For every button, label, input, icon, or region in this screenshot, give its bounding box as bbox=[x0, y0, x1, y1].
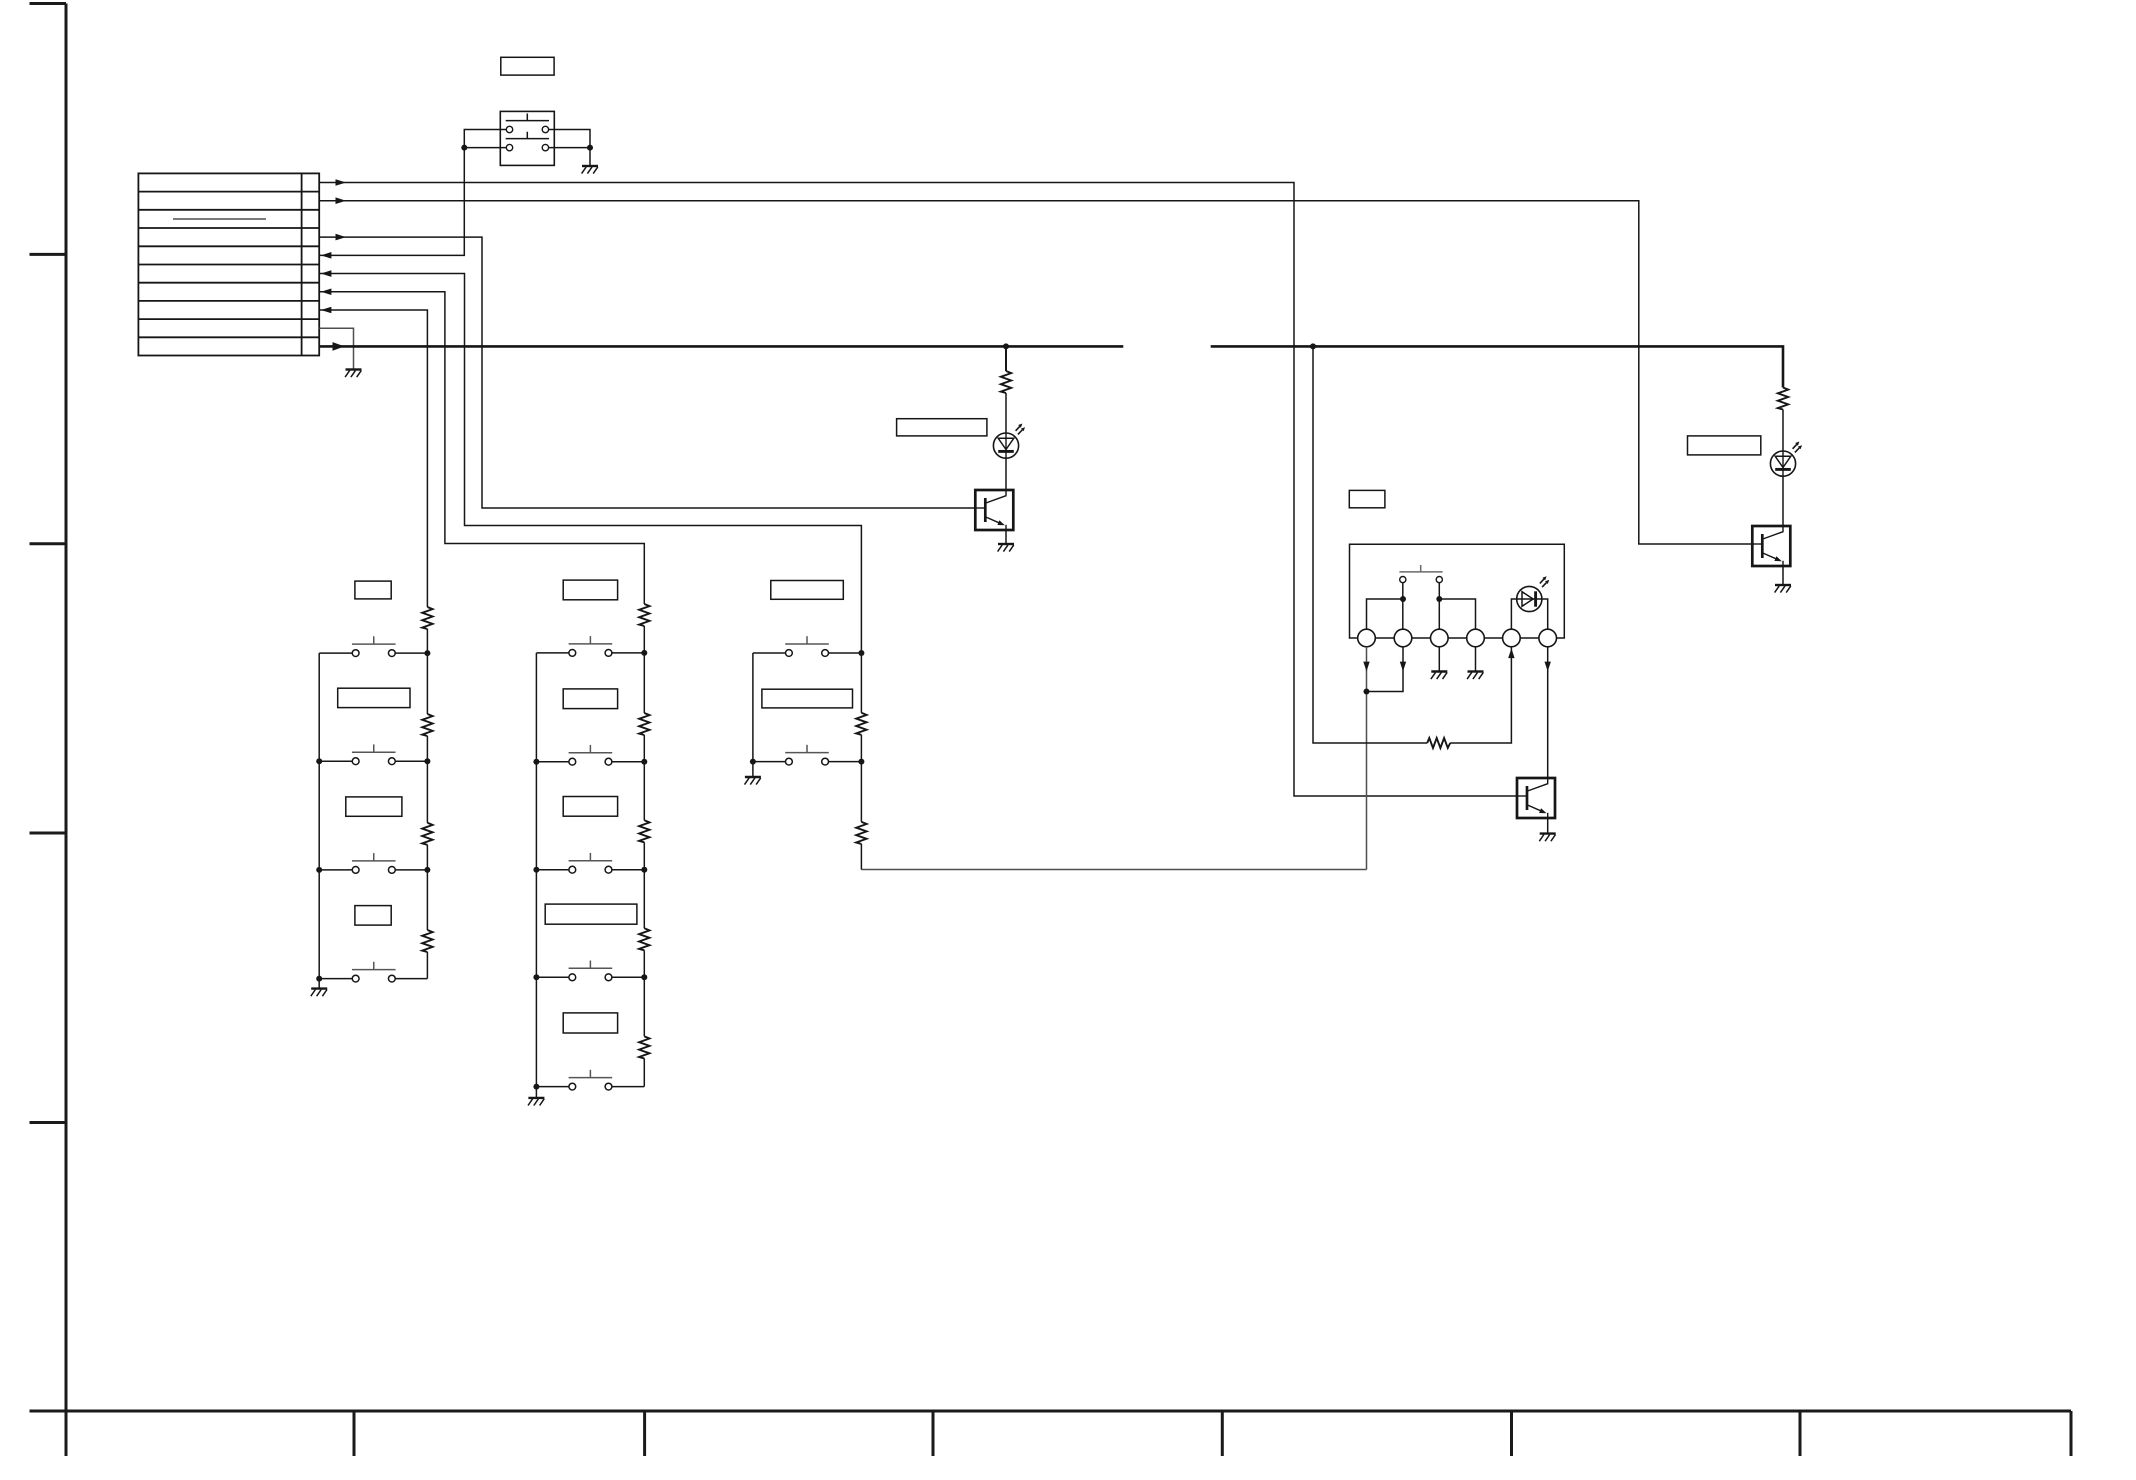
key switch S632 bbox=[785, 745, 829, 765]
wire pin4 arrow bbox=[336, 234, 347, 241]
junction ladder2 row2 left bbox=[533, 759, 539, 765]
label S612 bbox=[338, 688, 410, 707]
transistor Q602 bbox=[1752, 526, 1790, 566]
resistor R632 bbox=[856, 822, 866, 844]
label S632 bbox=[762, 689, 853, 708]
ground Q601 bbox=[998, 544, 1014, 552]
jack J601 pin 4 bbox=[1467, 629, 1485, 647]
wire pin8 arrow bbox=[321, 307, 332, 314]
ground ladder2 bbox=[528, 1098, 544, 1106]
resistor R603 bbox=[1427, 738, 1450, 748]
wire ladder1 rail seg1 bbox=[426, 629, 428, 714]
junction ladder1 row2 right bbox=[424, 758, 430, 764]
junction ladder2 row4 left bbox=[533, 974, 539, 980]
label S625 bbox=[563, 1013, 617, 1033]
wire pin1 arrow bbox=[336, 179, 347, 186]
wire to pin4 bbox=[1439, 599, 1475, 629]
wire pin6 down to Q603 bbox=[1547, 647, 1549, 778]
jack J601 pin 1 bbox=[1358, 629, 1376, 647]
label S622 bbox=[563, 689, 617, 709]
resistor R625 bbox=[639, 1036, 649, 1058]
ground Q603 bbox=[1539, 834, 1555, 842]
jack plug-detect switch bbox=[1399, 565, 1442, 583]
jack J601 pin 6 bbox=[1539, 629, 1557, 647]
wire ladder2 rail seg4 bbox=[643, 950, 645, 1036]
key switch S624 bbox=[569, 961, 613, 981]
junction ladder2 row1 right bbox=[641, 650, 647, 656]
wire ladder1 rail seg3 bbox=[426, 845, 428, 930]
LED D601 bbox=[993, 424, 1025, 459]
label S613 bbox=[346, 797, 402, 816]
wire D602 to Q602 bbox=[1782, 476, 1784, 526]
power switch S601 bbox=[500, 111, 554, 165]
wire ladder3 rail seg3 bbox=[860, 762, 862, 822]
wire pin5 arrow bbox=[321, 252, 332, 259]
label S623 bbox=[563, 797, 617, 817]
wire pin1 down to ladder3 link bbox=[1366, 647, 1368, 870]
wire S625 stubs bbox=[536, 1086, 644, 1088]
wire S611 stubs bbox=[319, 652, 427, 654]
arrow pin1 down bbox=[1363, 662, 1369, 672]
wire ladder3 to jack pin1 bbox=[861, 869, 1366, 871]
wire S631 stubs bbox=[753, 652, 862, 654]
arrow pin5 up bbox=[1508, 648, 1514, 658]
junction ladder1 row3 right bbox=[424, 867, 430, 873]
wire pin5 riser to D603 bbox=[1511, 599, 1516, 629]
jack J601 pin 2 bbox=[1394, 629, 1412, 647]
resistor R601 bbox=[1001, 371, 1011, 393]
ground S601 bbox=[582, 166, 598, 174]
wire pin5 to R603 and bus bbox=[1313, 346, 1511, 743]
wire S623 stubs bbox=[536, 869, 644, 871]
wire Q601 emitter to ground bbox=[1005, 530, 1007, 544]
LED D603 bbox=[1517, 576, 1550, 611]
key switch S625 bbox=[569, 1070, 613, 1090]
junction ladder3 row2 left bbox=[750, 759, 756, 765]
wire ladder1 rail seg4 bbox=[426, 952, 428, 979]
jack J601 body bbox=[1350, 544, 1565, 638]
key switch S612 bbox=[352, 744, 396, 764]
wire D603 to pin6 bbox=[1542, 599, 1548, 629]
key switch S613 bbox=[352, 853, 396, 873]
junction bus to R601 bbox=[1003, 343, 1009, 349]
wire pin2 to Q602 base bbox=[319, 201, 1752, 544]
key switch S611 bbox=[352, 636, 396, 656]
junction ladder1 row4 left bbox=[316, 976, 322, 982]
arrow pin6 down bbox=[1545, 662, 1551, 672]
key switch S623 bbox=[569, 853, 613, 873]
resistor R611 bbox=[422, 607, 432, 629]
junction S601 right bbox=[587, 145, 593, 151]
wire S624 stubs bbox=[536, 976, 644, 978]
junction pin1 pin2 bbox=[1364, 689, 1370, 695]
resistor R624 bbox=[639, 928, 649, 950]
wire D601 to Q601 bbox=[1005, 458, 1007, 490]
wire ladder3 return rail bbox=[752, 653, 754, 777]
resistor R612 bbox=[422, 714, 432, 736]
resistor R613 bbox=[422, 823, 432, 845]
wire ladder3 rail seg2 bbox=[860, 735, 862, 762]
wire detect switch left to pin2 bbox=[1402, 583, 1404, 630]
junction detect left bbox=[1400, 596, 1406, 602]
wire R602 to D602 bbox=[1782, 410, 1784, 452]
key switch S622 bbox=[569, 745, 613, 765]
wire power switch to pin5 bbox=[319, 148, 464, 256]
junction ladder2 row5 left bbox=[533, 1084, 539, 1090]
connector pin 3 blank net line bbox=[173, 218, 266, 220]
resistor R602 bbox=[1778, 388, 1788, 410]
wire ladder2 return rail bbox=[535, 653, 537, 1098]
wire pin4 to Q601 base bbox=[319, 237, 975, 508]
resistor R631 bbox=[856, 713, 866, 735]
wire ladder3 rail seg4 bbox=[860, 844, 862, 870]
key switch S621 bbox=[569, 636, 613, 656]
ground jack pin4 bbox=[1467, 672, 1483, 680]
ground ladder1 bbox=[311, 989, 327, 997]
junction ladder3 row2 right bbox=[858, 759, 864, 765]
wire S613 stubs bbox=[319, 869, 427, 871]
wire S622 stubs bbox=[536, 761, 644, 763]
wire S601 right contacts to ground bbox=[549, 130, 590, 167]
wire bus to R601 bbox=[1005, 346, 1007, 371]
wire pin6 to key ladder 3 bbox=[319, 274, 861, 653]
wire pin1 riser bbox=[1367, 599, 1404, 629]
junction ladder2 row4 right bbox=[641, 974, 647, 980]
wire S601 left contacts bbox=[464, 130, 506, 148]
LED D602 bbox=[1770, 442, 1802, 477]
jack J601 pin 3 bbox=[1431, 629, 1449, 647]
wire pin2 arrow bbox=[336, 197, 347, 204]
wire ladder2 rail seg1 bbox=[643, 626, 645, 713]
junction ladder2 row3 left bbox=[533, 867, 539, 873]
junction detect right bbox=[1436, 596, 1442, 602]
wire ladder2 rail seg5 bbox=[643, 1058, 645, 1086]
label S611 bbox=[355, 581, 391, 599]
wire ladder1 rail seg2 bbox=[426, 736, 428, 823]
wire pin8 to key ladder 1 bbox=[319, 310, 427, 607]
ground Q602 bbox=[1775, 585, 1791, 593]
wire pin4 to ground bbox=[1475, 647, 1477, 672]
label S631 bbox=[771, 581, 844, 600]
wire S612 stubs bbox=[319, 760, 427, 762]
wire R601 to D601 bbox=[1005, 393, 1007, 433]
resistor R621 bbox=[639, 604, 649, 626]
wire pin2 down bbox=[1367, 647, 1404, 692]
wire pin7 arrow bbox=[321, 288, 332, 295]
jack J601 pin 5 bbox=[1503, 629, 1521, 647]
ground jack pin3 bbox=[1431, 672, 1447, 680]
resistor R623 bbox=[639, 820, 649, 842]
ground ladder3 bbox=[745, 777, 761, 785]
wire pin10 arrow bbox=[333, 342, 345, 351]
label S614 bbox=[355, 906, 391, 926]
label power switch S601 bbox=[501, 57, 554, 75]
wire S621 stubs bbox=[536, 652, 644, 654]
junction ladder2 row2 right bbox=[641, 759, 647, 765]
wire detect switch right to pin3 bbox=[1438, 583, 1440, 630]
key switch S614 bbox=[352, 962, 396, 982]
label S621 bbox=[563, 580, 617, 600]
label S624 bbox=[545, 904, 637, 924]
junction bus to R603 bbox=[1310, 343, 1316, 349]
wire ladder1 return rail bbox=[318, 653, 320, 989]
wire Q603 emitter to ground bbox=[1547, 818, 1549, 834]
ground pin9 bbox=[345, 370, 361, 378]
wire ladder2 rail seg3 bbox=[643, 842, 645, 928]
wire pin6 arrow bbox=[321, 270, 332, 277]
connector CN601 bbox=[138, 173, 319, 355]
wire Q602 emitter to ground bbox=[1782, 566, 1784, 585]
label D601 bbox=[897, 419, 987, 436]
label D602 bbox=[1688, 436, 1761, 455]
wire pin9 to ground bbox=[319, 328, 353, 369]
wire S632 stubs bbox=[753, 761, 862, 763]
junction ladder3 row1 right bbox=[858, 650, 864, 656]
junction ladder1 row2 left bbox=[316, 758, 322, 764]
wire ladder3 rail seg1 bbox=[860, 653, 862, 713]
transistor Q601 bbox=[975, 490, 1013, 530]
junction ladder1 row3 left bbox=[316, 867, 322, 873]
junction ladder2 row3 right bbox=[641, 867, 647, 873]
junction S601 left bbox=[461, 145, 467, 151]
wire S614 stubs bbox=[319, 978, 427, 980]
arrow pin2 down bbox=[1400, 662, 1406, 672]
wire pin10 supply bus bbox=[319, 346, 1783, 387]
wire pin1 to Q603 base bbox=[319, 183, 1517, 797]
key switch S631 bbox=[785, 636, 829, 656]
resistor R614 bbox=[422, 930, 432, 952]
wire ladder2 rail seg2 bbox=[643, 735, 645, 820]
wire pin7 to key ladder 2 bbox=[319, 292, 644, 604]
wire pin3 to ground bbox=[1438, 647, 1440, 672]
label jack J601 bbox=[1349, 490, 1385, 507]
junction ladder1 row1 right bbox=[424, 650, 430, 656]
transistor Q603 bbox=[1517, 778, 1555, 818]
resistor R622 bbox=[639, 713, 649, 735]
